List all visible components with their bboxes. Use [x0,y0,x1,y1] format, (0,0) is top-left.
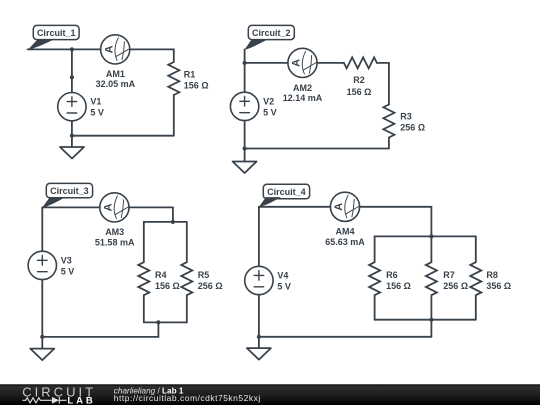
wire AM4 to branch [360,207,432,237]
svg-text:256 Ω: 256 Ω [443,281,468,291]
svg-text:32.05 mA: 32.05 mA [96,79,136,89]
wire bottom C3 [42,336,158,338]
svg-text:256 Ω: 256 Ω [198,281,223,291]
ammeter AM4 [325,192,365,247]
label bubble Circuit_1 [27,25,79,50]
wire top C2 [245,62,288,64]
wire top right C1 [130,49,174,62]
svg-text:AM1: AM1 [106,69,125,79]
svg-text:Circuit_1: Circuit_1 [37,28,76,38]
svg-text:R7: R7 [443,270,455,280]
svg-text:V2: V2 [263,96,274,106]
svg-text:R2: R2 [353,75,365,85]
wire AM3 to branch [129,207,173,222]
svg-text:LAB: LAB [67,395,95,405]
wire top C4 [259,206,331,208]
svg-text:AM3: AM3 [105,227,124,237]
resistor R5 [181,222,222,323]
wire top bar C4 [375,235,476,237]
svg-text:AM2: AM2 [293,83,312,93]
svg-text:V1: V1 [90,97,101,107]
label bubble Circuit_4 [259,184,310,207]
node dot C2 bottom [243,146,247,150]
svg-text:156 Ω: 156 Ω [155,281,180,291]
wire top C3 [42,206,100,208]
svg-text:5 V: 5 V [90,108,104,118]
svg-text:256 Ω: 256 Ω [400,123,425,133]
svg-text:R5: R5 [198,270,210,280]
node dot C4 branch top [429,234,433,238]
svg-text:156 Ω: 156 Ω [347,87,372,97]
wire bottom bar C3 [144,321,187,323]
resistor R2 [344,57,377,97]
svg-text:51.58 mA: 51.58 mA [95,237,135,247]
svg-text:Circuit_3: Circuit_3 [50,186,89,196]
svg-text:Circuit_2: Circuit_2 [252,28,291,38]
svg-text:356 Ω: 356 Ω [486,281,511,291]
resistor R4 [138,222,179,323]
resistor R3 [383,105,425,149]
ammeter AM3 [95,193,135,248]
resistor R1 [168,62,208,136]
svg-text:R8: R8 [486,270,498,280]
svg-text:AM4: AM4 [335,226,354,236]
voltage source V1 [58,49,104,147]
svg-text:5 V: 5 V [277,281,291,291]
ammeter AM1 [96,35,136,89]
wire R2 to corner [377,63,389,105]
svg-text:156 Ω: 156 Ω [386,281,411,291]
svg-text:R1: R1 [184,70,196,80]
node dot C2 top [243,61,247,65]
svg-text:V4: V4 [277,270,288,280]
wire branch to bottom C4 [430,320,432,337]
ground C3 [30,349,54,361]
label bubble Circuit_2 [244,25,294,50]
svg-text:R4: R4 [155,270,167,280]
svg-text:Circuit_4: Circuit_4 [267,187,306,197]
svg-text:156 Ω: 156 Ω [184,81,209,91]
node dot C1 top [70,47,74,51]
logo schematic line [23,397,67,404]
wire bottom C2 [245,148,389,150]
wire bottom bar C4 [375,319,476,321]
node dot C4 branch bottom [429,318,433,322]
wire left C2 [244,49,246,92]
svg-text:5 V: 5 V [61,266,75,276]
resistor R7 [426,236,468,319]
node dot C3 bottom left [40,335,44,339]
wire branch to bottom C3 [157,322,159,337]
wire top bar C3 [144,221,187,223]
ammeter AM2 [283,48,323,103]
voltage source V4 [245,207,291,348]
wire top C1 [28,48,101,50]
voltage source V2 [230,92,276,161]
node dot C3 branch top [171,220,175,224]
svg-text:12.14 mA: 12.14 mA [283,93,323,103]
svg-text:65.63 mA: 65.63 mA [325,237,365,247]
node dot C1 bottom [70,134,74,138]
svg-text:R3: R3 [400,112,412,122]
svg-text:V3: V3 [61,255,72,265]
resistor R6 [369,236,411,319]
label bubble Circuit_3 [42,183,93,208]
wire bottom C4 [259,336,432,338]
node dot C3 branch bottom [156,320,160,324]
ground C4 [247,348,271,360]
wire bottom C1 [72,135,174,137]
node dot C4 bottom left [257,335,261,339]
resistor R8 [470,236,511,319]
ground C1 [60,147,84,159]
svg-text:R6: R6 [386,270,398,280]
ground C2 [233,162,257,174]
voltage source V3 [28,207,74,348]
svg-text:5 V: 5 V [263,107,277,117]
node dot C1 mid [70,75,74,79]
wire AM2 to R2 [317,62,344,64]
svg-text:http://circuitlab.com/cdkt75kn: http://circuitlab.com/cdkt75kn52kxj [114,393,261,403]
